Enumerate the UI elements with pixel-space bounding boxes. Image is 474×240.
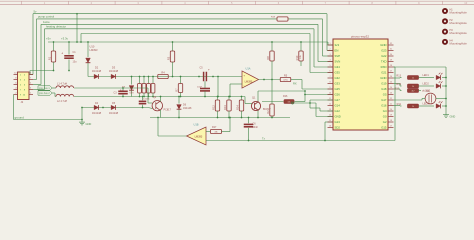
resistor R3 (172, 41, 174, 43)
resistor R10 (300, 41, 302, 43)
wire aux net to IC (291, 102, 293, 104)
ground symbol GND2 (445, 112, 447, 115)
inductor L1 (52, 87, 56, 89)
svg-text:9: 9 (329, 87, 330, 89)
svg-text:LED3: LED3 (423, 102, 430, 105)
diode D4 (94, 105, 98, 109)
wire opto connections (147, 88, 149, 103)
svg-text:R13: R13 (223, 105, 227, 110)
svg-text:U1A: U1A (245, 67, 250, 71)
svg-text:15: 15 (329, 120, 331, 122)
wire net bus4 'heating detector' (45, 28, 315, 30)
svg-text:G27: G27 (335, 98, 341, 102)
svg-text:G17: G17 (381, 98, 387, 102)
svg-text:10: 10 (329, 93, 331, 95)
svg-text:1: 1 (329, 43, 330, 45)
svg-text:R5: R5 (284, 73, 288, 77)
diode D5 (111, 105, 115, 109)
diode D6 (178, 97, 180, 104)
net label ds1820 (419, 90, 422, 92)
voltage reference D1 LM385 (87, 41, 89, 43)
svg-text:23: 23 (390, 93, 392, 95)
svg-text:10nF: 10nF (253, 126, 259, 129)
svg-text:RXD: RXD (381, 65, 387, 69)
svg-text:18: 18 (390, 120, 392, 122)
capacitor C1 (68, 41, 70, 43)
svg-text:R14: R14 (235, 105, 239, 110)
wire RX to IC (291, 79, 302, 81)
svg-text:1N4148: 1N4148 (109, 69, 119, 73)
svg-text:+: + (208, 68, 210, 72)
svg-text:R8: R8 (266, 56, 270, 60)
svg-text:10uF: 10uF (197, 86, 203, 88)
svg-text:MountingHole: MountingHole (450, 42, 468, 46)
svg-text:32: 32 (390, 43, 392, 45)
net label pms bus 2 (38, 91, 52, 95)
svg-text:G32: G32 (335, 76, 341, 80)
svg-text:LM393: LM393 (245, 81, 253, 84)
mounting hole H1 (442, 8, 448, 14)
wire lower diode row (82, 107, 148, 109)
svg-text:68n: 68n (130, 92, 135, 95)
svg-text:D3: D3 (112, 65, 116, 69)
resistor R5 (280, 77, 291, 81)
svg-text:R14: R14 (396, 83, 401, 86)
wire mid bus (74, 96, 245, 98)
svg-text:1N4148: 1N4148 (109, 111, 119, 115)
svg-text:D2: D2 (95, 65, 99, 69)
svg-text:G15: G15 (381, 126, 387, 130)
svg-text:4k7: 4k7 (412, 90, 415, 92)
LED LED1 (419, 77, 435, 79)
svg-text:22: 22 (390, 98, 392, 100)
svg-text:1k: 1k (412, 106, 414, 108)
svg-text:heating detector: heating detector (46, 25, 66, 29)
svg-text:16: 16 (329, 126, 331, 128)
svg-text:1k: 1k (412, 77, 414, 79)
svg-text:GND: GND (380, 76, 386, 80)
svg-text:4x100k: 4x100k (142, 98, 150, 100)
svg-text:21: 21 (390, 104, 392, 106)
svg-text:pump control: pump control (38, 15, 55, 19)
wire net bus2 'pump control' (37, 18, 323, 20)
net label pms bus 1 (38, 86, 52, 90)
svg-text:pms bus 1: pms bus 1 (39, 88, 50, 90)
wire net bus5 (81, 33, 310, 35)
svg-text:LM393: LM393 (195, 135, 203, 138)
svg-text:25: 25 (390, 82, 392, 84)
sheet frame border (0, 0, 474, 2)
svg-text:R16: R16 (283, 95, 288, 98)
svg-text:R11: R11 (397, 103, 402, 106)
svg-text:R15: R15 (394, 88, 399, 91)
svg-text:SD2: SD2 (335, 126, 341, 130)
svg-text:G22: G22 (381, 54, 387, 58)
svg-text:R10: R10 (295, 55, 299, 60)
wire pms row right (123, 87, 148, 89)
transistor Q2 PC817 opto (152, 101, 162, 111)
wire ground net (13, 95, 15, 120)
svg-text:+: + (61, 52, 63, 56)
resistor R15 ds1820 row (394, 88, 401, 90)
wire Q1 connections (244, 97, 246, 104)
capacitor C3 (122, 87, 124, 89)
svg-text:GND: GND (86, 122, 92, 126)
svg-text:L1 4.7uH: L1 4.7uH (57, 83, 67, 86)
svg-text:29: 29 (390, 60, 392, 62)
svg-text:G16: G16 (381, 104, 387, 108)
wire power drop verticals (76, 14, 78, 42)
resistor R4 (158, 74, 169, 78)
svg-text:G0: G0 (383, 115, 387, 119)
svg-text:10u: 10u (73, 61, 78, 64)
svg-text:R3: R3 (166, 56, 170, 60)
svg-text:L2 4.7uH: L2 4.7uH (57, 100, 67, 103)
resistor R1 (53, 41, 55, 43)
svg-text:6: 6 (329, 71, 330, 73)
svg-text:U1B: U1B (193, 123, 198, 127)
svg-text:1N4148: 1N4148 (92, 69, 102, 73)
mounting hole H3 (442, 29, 448, 35)
resistor R17 (206, 131, 210, 133)
svg-text:4: 4 (329, 60, 330, 62)
wire op-amp inputs (217, 77, 219, 97)
svg-text:19: 19 (390, 115, 392, 117)
svg-text:PC817: PC817 (164, 109, 172, 112)
svg-text:R4: R4 (161, 70, 165, 74)
resistor R14 (394, 83, 401, 85)
svg-text:20: 20 (390, 109, 392, 111)
svg-text:G34: G34 (335, 65, 341, 69)
svg-text:G18: G18 (381, 87, 387, 91)
diode D2 (94, 74, 98, 78)
svg-text:G26: G26 (335, 93, 341, 97)
svg-text:U10: U10 (90, 45, 95, 49)
svg-text:G33: G33 (335, 82, 341, 86)
svg-text:G19: G19 (381, 82, 387, 86)
svg-text:3v3: 3v3 (335, 43, 340, 47)
zener D7 (131, 77, 133, 85)
svg-text:R12: R12 (211, 105, 215, 110)
connector J2 (18, 72, 30, 100)
svg-text:+5v: +5v (46, 37, 51, 41)
svg-text:RX: RX (293, 82, 297, 86)
resistor R7 (180, 77, 182, 84)
svg-text:R1: R1 (47, 56, 51, 60)
svg-text:pinovo-esp32: pinovo-esp32 (351, 34, 369, 38)
svg-text:2: 2 (329, 49, 330, 51)
wire lower bus (150, 117, 290, 119)
resistor bank R20-R23 (139, 77, 141, 84)
svg-text:1N4148: 1N4148 (92, 111, 102, 115)
svg-text:EN: EN (335, 49, 339, 53)
svg-text:12: 12 (329, 104, 331, 106)
svg-text:G35: G35 (335, 71, 341, 75)
svg-text:LED1: LED1 (423, 74, 430, 77)
svg-text:G13: G13 (335, 120, 341, 124)
LED LED2 (419, 85, 435, 87)
wire TX vertical right (394, 67, 396, 141)
svg-text:R7: R7 (174, 88, 178, 92)
svg-text:GND: GND (335, 115, 341, 119)
svg-text:-: - (244, 84, 245, 87)
svg-text:SVN: SVN (335, 60, 341, 64)
wire TX to IC (324, 122, 326, 141)
resistor R16 (284, 100, 294, 104)
resistor R8 (271, 41, 273, 43)
svg-text:MountingHole: MountingHole (450, 21, 468, 25)
wire GND return right (394, 66, 447, 68)
svg-text:SVP: SVP (335, 54, 341, 58)
svg-text:G25: G25 (335, 87, 341, 91)
svg-text:3: 3 (329, 54, 330, 56)
capacitor C4 (204, 81, 206, 88)
op-amp U1A LM393 (242, 71, 259, 88)
resistor R11 (394, 105, 401, 107)
svg-text:5: 5 (329, 65, 330, 67)
resistor R2 (270, 104, 274, 116)
svg-text:1k: 1k (412, 86, 414, 88)
mounting hole H2 (442, 18, 448, 24)
wire signal bus (88, 76, 242, 78)
svg-text:G5: G5 (383, 93, 387, 97)
wire net bus1 '5v' (33, 13, 327, 15)
svg-text:R2: R2 (266, 110, 270, 114)
wire U1B output (158, 135, 187, 137)
svg-text:G4: G4 (383, 109, 387, 113)
ground symbol GND1 (81, 119, 83, 121)
buzzer SP1 (425, 93, 436, 104)
svg-text:R17: R17 (212, 126, 217, 129)
svg-text:1N4148: 1N4148 (183, 107, 192, 110)
svg-text:G23: G23 (381, 49, 387, 53)
resistor R18 (277, 17, 288, 21)
svg-text:GND: GND (450, 115, 456, 119)
op-amp U1B LM393 (187, 127, 207, 145)
svg-text:MountingHole: MountingHole (450, 11, 468, 15)
svg-text:26: 26 (390, 76, 392, 78)
svg-text:8: 8 (329, 82, 330, 84)
svg-text:LM393: LM393 (90, 48, 98, 52)
wire op-amp output (259, 79, 281, 81)
svg-text:G2: G2 (383, 120, 387, 124)
svg-text:TXD: TXD (381, 60, 387, 64)
svg-text:7: 7 (329, 76, 330, 78)
capacitor C5 (203, 72, 205, 82)
svg-text:30: 30 (390, 54, 392, 56)
wire +3.3V rail (48, 41, 328, 43)
wire aux stub (309, 100, 311, 108)
wire R1 bottom to J2 (30, 70, 54, 72)
svg-text:+3.3v: +3.3v (61, 37, 69, 41)
inductor L2 (52, 92, 55, 94)
diode D3 (111, 74, 115, 78)
svg-text:10k: 10k (288, 101, 291, 103)
module pins (328, 44, 334, 46)
svg-text:MountingHole: MountingHole (450, 31, 468, 35)
capacitor C7 (142, 97, 144, 101)
resistor R13 (394, 77, 401, 79)
svg-text:G21: G21 (381, 71, 387, 75)
svg-text:1wire: 1wire (43, 20, 50, 24)
wire J2 to bus verticals (32, 14, 34, 75)
capacitor C6 (248, 117, 250, 119)
svg-text:pms bus 2: pms bus 2 (39, 93, 50, 95)
transistor Q1 BC817 (251, 101, 260, 110)
svg-text:R13: R13 (396, 75, 401, 78)
wire U1B inverting input (206, 140, 395, 142)
resistors R12 R13 R14 trio (217, 97, 219, 101)
wire net bus3 '1wire' (41, 23, 318, 25)
svg-text:17: 17 (390, 126, 392, 128)
svg-text:G12: G12 (335, 109, 341, 113)
svg-text:G14: G14 (335, 104, 341, 108)
mounting hole H4 (442, 39, 448, 45)
svg-text:24: 24 (390, 87, 392, 89)
svg-text:27: 27 (390, 71, 392, 73)
svg-text:LED2: LED2 (423, 82, 430, 85)
LED LED3 (419, 105, 435, 107)
svg-text:GND: GND (380, 43, 386, 47)
svg-text:28: 28 (390, 65, 392, 67)
svg-text:31: 31 (390, 49, 392, 51)
svg-text:ground: ground (15, 115, 25, 119)
module U3 pinovo-esp32 (333, 39, 388, 130)
